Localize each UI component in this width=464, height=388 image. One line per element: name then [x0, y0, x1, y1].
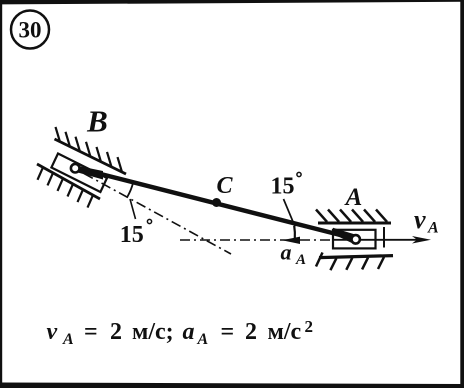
- svg-text:м/с;: м/с;: [132, 319, 174, 345]
- leader line to 15 label at A: [284, 199, 296, 227]
- piston cap line right of slider A: [383, 227, 385, 248]
- rod AB: [77, 168, 356, 239]
- guide B top hatching: [56, 127, 123, 172]
- guide B bottom hatching: [38, 167, 94, 207]
- slider block B: [51, 154, 107, 193]
- svg-text:=: =: [221, 319, 235, 345]
- svg-text:v: v: [414, 205, 426, 234]
- angle arc at B (15 deg between rod and guide axis): [127, 182, 133, 197]
- svg-text:2: 2: [110, 319, 122, 345]
- svg-text:2: 2: [245, 319, 257, 345]
- velocity arrow vA line: [333, 239, 425, 241]
- label 15 deg at B: [120, 219, 152, 248]
- guide A bottom hatching: [316, 253, 384, 271]
- point C: [212, 198, 221, 207]
- svg-text:B: B: [86, 104, 108, 139]
- slider block A: [333, 230, 376, 249]
- rod thick end at B: [76, 166, 103, 180]
- label v_A: [414, 205, 439, 237]
- svg-text:15: 15: [271, 174, 295, 200]
- rod thick end at A: [333, 228, 356, 245]
- svg-text:=: =: [84, 319, 98, 345]
- svg-text:м/с: м/с: [268, 319, 302, 345]
- svg-text:v: v: [47, 319, 58, 345]
- pin A: [352, 235, 360, 243]
- leader line to 15 label at B: [130, 199, 136, 219]
- svg-text:A: A: [427, 220, 439, 237]
- svg-text:a: a: [183, 319, 195, 345]
- svg-text:2: 2: [305, 317, 314, 336]
- svg-text:a: a: [281, 240, 292, 265]
- svg-text:A: A: [295, 252, 306, 268]
- dash-dot axis of guide B: [84, 174, 231, 255]
- svg-text:A: A: [344, 184, 363, 211]
- guide A top hatching: [316, 210, 387, 222]
- svg-text:C: C: [216, 173, 233, 199]
- pin B: [71, 164, 80, 173]
- svg-text:A: A: [62, 331, 74, 348]
- equation text v_A = 2 m/s; a_A = 2 m/s^2: [47, 317, 314, 348]
- svg-text:15: 15: [120, 222, 144, 248]
- svg-text:30: 30: [19, 18, 42, 43]
- guide B top line: [55, 139, 127, 174]
- acceleration arrow head a_A (points left): [282, 237, 300, 244]
- label 15 deg at A: [271, 172, 302, 199]
- label a_A: [281, 240, 307, 269]
- angle tick at A (15 deg between rod and horizontal): [293, 226, 296, 239]
- problem number badge circle 30: [11, 11, 49, 49]
- horizontal dash-dot centerline through A: [180, 239, 333, 241]
- guide A bottom line: [319, 256, 393, 258]
- guide A top line: [318, 222, 391, 225]
- guide B bottom line: [37, 164, 100, 199]
- svg-text:A: A: [197, 331, 209, 348]
- velocity arrow head: [412, 236, 431, 244]
